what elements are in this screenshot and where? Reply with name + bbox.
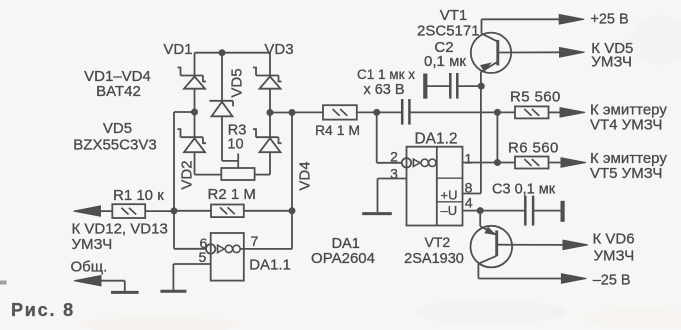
svg-text:DA1.2: DA1.2 [414, 131, 457, 148]
svg-text:VT5 УМЗЧ: VT5 УМЗЧ [590, 165, 662, 182]
svg-text:–25 В: –25 В [593, 273, 631, 289]
svg-text:VD1: VD1 [163, 41, 192, 58]
svg-text:1: 1 [464, 150, 472, 166]
svg-text:0,1 мк: 0,1 мк [424, 53, 466, 70]
svg-text:VD5: VD5 [229, 68, 246, 97]
svg-text:7: 7 [251, 233, 259, 249]
svg-text:4: 4 [465, 194, 473, 210]
svg-text:10: 10 [227, 136, 243, 152]
svg-text:К VD6: К VD6 [593, 231, 635, 248]
svg-text:C1 1 мк х: C1 1 мк х [357, 67, 415, 82]
svg-text:VT4 УМЗЧ: VT4 УМЗЧ [590, 117, 662, 134]
svg-text:R4 1 M: R4 1 M [315, 122, 360, 138]
svg-text:Рис. 8: Рис. 8 [11, 300, 75, 320]
svg-text:8: 8 [465, 179, 473, 195]
svg-text:VD4: VD4 [297, 161, 314, 190]
svg-text:Общ.: Общ. [71, 259, 108, 276]
svg-text:+U: +U [441, 187, 458, 202]
svg-text:х 63 В: х 63 В [363, 82, 404, 98]
svg-text:R5 560: R5 560 [510, 89, 561, 106]
svg-text:2SC5171: 2SC5171 [417, 22, 480, 39]
svg-text:VD2: VD2 [179, 160, 196, 189]
svg-text:R1 10 к: R1 10 к [113, 187, 164, 204]
svg-text:5: 5 [199, 249, 207, 265]
svg-text:К VD12, VD13: К VD12, VD13 [72, 220, 168, 237]
svg-text:УМЗЧ: УМЗЧ [594, 248, 635, 265]
svg-text:+25 В: +25 В [590, 11, 628, 27]
svg-text:R2 1 M: R2 1 M [208, 186, 256, 203]
svg-text:УМЗЧ: УМЗЧ [591, 54, 632, 71]
svg-text:2: 2 [390, 149, 398, 165]
svg-text:DA1.1: DA1.1 [249, 256, 291, 273]
svg-text:VD5: VD5 [103, 120, 132, 137]
svg-text:BZX55C3V3: BZX55C3V3 [73, 137, 156, 154]
svg-text:R6 560: R6 560 [508, 139, 559, 156]
svg-text:BAT42: BAT42 [96, 83, 141, 100]
svg-text:–U: –U [441, 203, 458, 218]
svg-text:VD3: VD3 [264, 41, 293, 58]
svg-text:VT2: VT2 [425, 234, 451, 250]
svg-text:2SA1930: 2SA1930 [404, 251, 464, 267]
svg-text:OPA2604: OPA2604 [311, 250, 375, 267]
svg-text:УМЗЧ: УМЗЧ [72, 236, 113, 253]
svg-text:C3 0,1 мк: C3 0,1 мк [492, 182, 556, 198]
svg-text:3: 3 [390, 165, 398, 181]
